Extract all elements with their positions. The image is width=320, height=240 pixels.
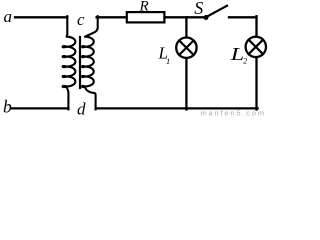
svg-text:2: 2 [243, 57, 247, 66]
svg-text:L: L [229, 44, 244, 64]
wire switch to right branch [229, 16, 257, 18]
resistor R box [127, 12, 165, 22]
svg-text:R: R [139, 0, 149, 15]
right branch vertical to L2 [255, 16, 257, 36]
lamp L1 [176, 38, 196, 58]
svg-text:a: a [4, 7, 13, 26]
svg-text:d: d [77, 100, 86, 118]
svg-text:manfen5.com: manfen5.com [201, 109, 266, 117]
svg-text:S: S [194, 0, 203, 18]
svg-text:b: b [3, 96, 12, 116]
L1 branch wire to bottom [185, 59, 187, 110]
wire b to transformer primary bottom [12, 107, 69, 109]
bottom wire of lamp circuit [96, 107, 258, 109]
switch S blade [207, 6, 228, 17]
wire a to transformer primary top [15, 16, 67, 18]
switch S pivot dot [204, 15, 209, 20]
L2 branch wire to bottom [255, 58, 257, 110]
lamp L2 [246, 37, 266, 57]
svg-text:1: 1 [166, 56, 170, 66]
transformer secondary winding (right coil) [82, 16, 98, 109]
svg-text:c: c [77, 10, 85, 29]
wire resistor to switch, junction with L1 branch [165, 16, 204, 18]
L1 branch wire from top junction [185, 17, 187, 36]
transformer core [79, 37, 81, 88]
transformer primary winding (left coil) [63, 16, 76, 109]
wire secondary top to resistor [97, 16, 126, 18]
